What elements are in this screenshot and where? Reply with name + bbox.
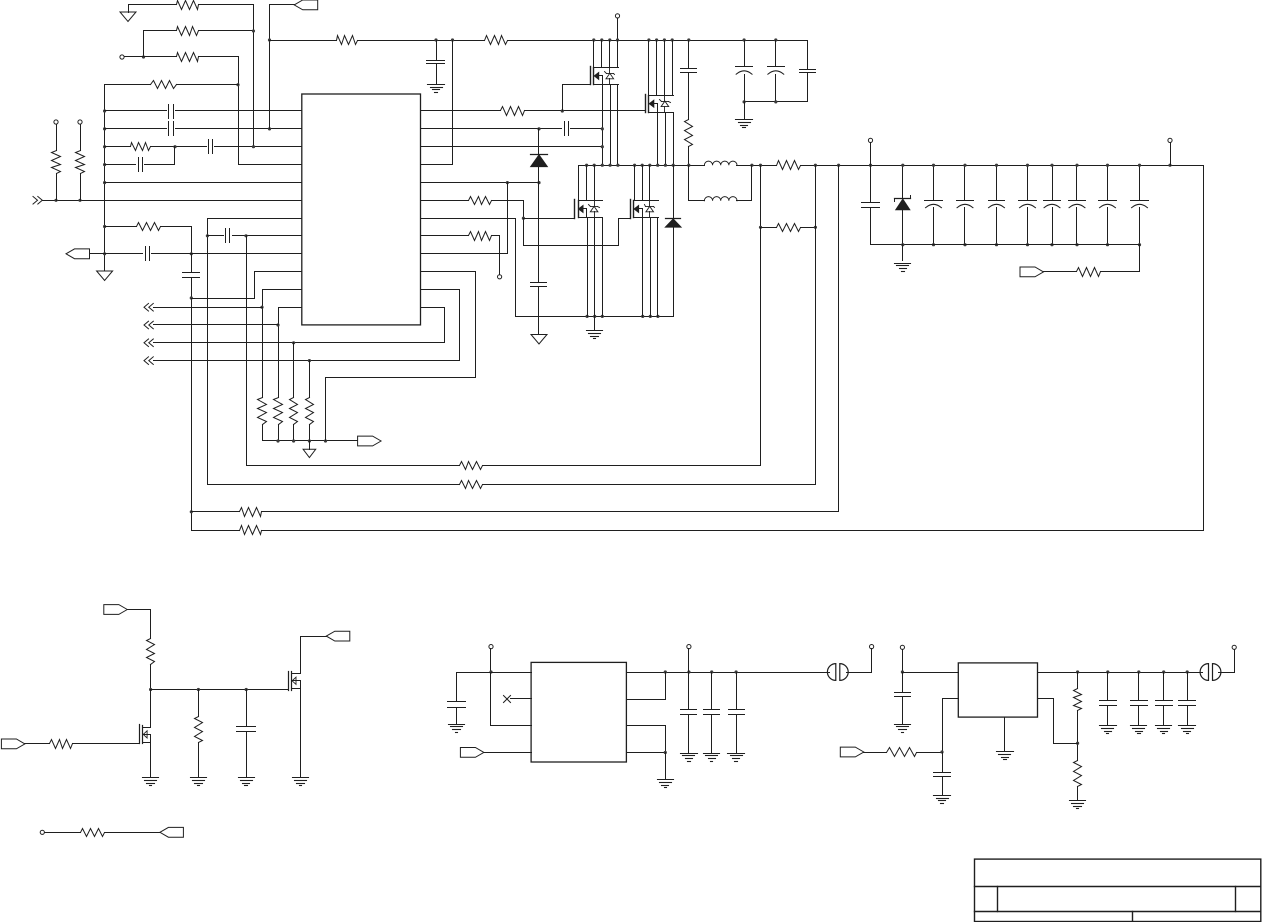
junction [655, 38, 658, 41]
node [236, 83, 239, 86]
wire [151, 146, 207, 148]
wire [105, 164, 136, 166]
junction [649, 315, 652, 318]
junction [103, 225, 106, 228]
wire rail [263, 440, 358, 442]
wire [154, 324, 279, 326]
wire [649, 166, 651, 201]
ground [143, 778, 159, 786]
wire [648, 41, 650, 96]
diode D1 [531, 129, 548, 283]
wire rail [627, 672, 830, 674]
wire [176, 128, 302, 130]
ground [895, 725, 911, 733]
junction [743, 100, 746, 103]
wire [154, 307, 263, 309]
resistor R21 [460, 462, 483, 470]
pin P10 [687, 645, 691, 649]
junction [940, 750, 943, 753]
wire [594, 166, 596, 201]
wire [233, 235, 302, 237]
ground [1070, 801, 1086, 809]
resistor R29 [81, 829, 105, 837]
wire [421, 183, 508, 254]
resistor R18 [469, 232, 492, 241]
flag F8 [160, 827, 184, 837]
resistor R20 [777, 224, 801, 232]
junction [814, 164, 817, 167]
pin P3 [78, 120, 82, 124]
resistor R24 [240, 526, 262, 535]
wire [199, 56, 239, 58]
wire [457, 672, 532, 674]
junction [308, 439, 311, 442]
junction [1106, 243, 1109, 246]
ground [658, 753, 674, 788]
junction [600, 38, 603, 41]
junction [663, 38, 666, 41]
junction [451, 38, 454, 41]
wire [309, 425, 311, 441]
wire [208, 219, 302, 485]
wire [262, 425, 264, 441]
wire [1101, 245, 1140, 272]
wire [198, 690, 200, 717]
junction [774, 38, 777, 41]
capacitor C20 [1044, 166, 1061, 245]
wire [255, 271, 302, 273]
junction [710, 670, 713, 673]
wire [105, 110, 167, 112]
net-tie J1 [827, 664, 848, 681]
resistor R14 [485, 36, 508, 45]
capacitor C6 [183, 273, 200, 278]
wire [760, 166, 762, 228]
pin P9 [489, 645, 493, 649]
resistor R23 [240, 508, 262, 517]
wire [586, 166, 588, 201]
ground [531, 335, 547, 345]
pin P5 [498, 275, 502, 279]
inductor L1 [704, 161, 737, 165]
capacitor C13 [565, 122, 569, 136]
wire [627, 726, 666, 753]
junction [616, 38, 619, 41]
junction [206, 234, 209, 237]
wire [215, 146, 302, 148]
flag F4 [1020, 267, 1044, 277]
wire [516, 219, 674, 317]
wire [145, 164, 175, 166]
junction [245, 688, 248, 691]
pin P4 [615, 14, 619, 18]
wire [688, 147, 690, 166]
wire [563, 85, 591, 111]
junction [506, 181, 509, 184]
wire [161, 227, 192, 254]
wire [815, 166, 817, 228]
ground [97, 271, 113, 281]
transistor Q2 [646, 95, 674, 113]
wire rail [262, 530, 1204, 532]
no-connect [504, 696, 511, 703]
junction [664, 670, 667, 673]
node [252, 145, 255, 148]
junction [103, 252, 106, 255]
wire [672, 41, 674, 96]
ground [428, 85, 445, 93]
port A4 [144, 357, 153, 365]
resistor R26 [147, 639, 155, 665]
junction [190, 510, 193, 513]
wire [421, 128, 562, 130]
wire [602, 85, 604, 166]
ic U1 [302, 94, 421, 325]
wire [815, 228, 817, 485]
resistor R5 [131, 143, 151, 151]
capacitor C5 [146, 247, 150, 261]
capacitor C25 [448, 673, 466, 724]
resistor R28 [195, 717, 203, 743]
junction [434, 38, 437, 41]
wire [1077, 673, 1079, 689]
wire [421, 182, 539, 184]
wire [421, 235, 469, 237]
ground [239, 778, 255, 786]
wire [43, 200, 302, 202]
inductor L2 [689, 166, 752, 201]
capacitor C8 [427, 41, 445, 85]
junction [901, 164, 904, 167]
node [54, 199, 57, 202]
capacitor C24 [237, 690, 256, 778]
wire [745, 101, 808, 103]
net-tie J2 [1200, 664, 1221, 681]
resistor R16 [685, 120, 693, 147]
wire [293, 425, 295, 441]
ground [293, 778, 309, 786]
wire [90, 253, 143, 255]
pin P7 [1168, 138, 1172, 142]
junction [647, 38, 650, 41]
resistor R1 [177, 1, 199, 10]
junction [103, 163, 106, 166]
wire [688, 649, 690, 673]
capacitor Cx [1131, 673, 1148, 726]
junction [1050, 243, 1053, 246]
flag F7 [326, 631, 350, 641]
resistor R6 [52, 151, 61, 174]
wire [270, 40, 337, 42]
junction [593, 315, 596, 318]
junction [308, 359, 311, 362]
node [173, 145, 176, 148]
resistor R30 [887, 748, 917, 757]
wire rail [737, 165, 777, 167]
wire [270, 5, 295, 129]
wire [279, 307, 302, 309]
wire rail [871, 244, 1140, 246]
capacitor C14 [531, 283, 547, 287]
wire [421, 41, 453, 165]
wire [144, 30, 177, 32]
capacitor C19 [1019, 166, 1037, 245]
junction [633, 164, 636, 167]
wire [192, 272, 255, 299]
resistor R10 [274, 398, 283, 425]
resistor R22 [460, 481, 483, 489]
wire [847, 649, 872, 673]
capacitor C30 [934, 753, 951, 796]
wire [617, 41, 619, 68]
wire [617, 85, 619, 166]
wire [326, 272, 476, 441]
wire [105, 182, 302, 184]
capacitor C12 [800, 41, 816, 102]
wire rail [483, 484, 816, 486]
ground [587, 317, 603, 339]
junction [616, 164, 619, 167]
node [252, 29, 255, 32]
junction [1026, 164, 1029, 167]
wire [571, 128, 603, 130]
ground [1100, 726, 1117, 734]
node [190, 252, 193, 255]
resistor R13 [337, 36, 358, 45]
resistor R31 [1074, 689, 1082, 711]
wire bus [104, 85, 106, 271]
capacitor C29 [895, 673, 911, 724]
junction [1106, 164, 1109, 167]
wire [593, 41, 595, 68]
wire [128, 610, 151, 639]
wire [492, 201, 524, 246]
wire [610, 85, 612, 166]
resistor R3 [177, 53, 199, 62]
wire rail [262, 511, 839, 513]
ground [704, 754, 720, 762]
wire [1203, 166, 1205, 531]
wire [239, 164, 302, 166]
ic U2 [531, 662, 626, 762]
wire [601, 41, 603, 68]
junction [537, 127, 540, 130]
wire [917, 752, 943, 754]
junction [593, 164, 596, 167]
flag F9 [460, 748, 484, 758]
wire rail SW [579, 165, 705, 167]
junction [759, 164, 762, 167]
wire [150, 690, 152, 728]
wire [634, 166, 636, 201]
junction [592, 38, 595, 41]
wire [238, 57, 240, 165]
wire [511, 698, 532, 700]
capacitor C1 [169, 105, 174, 119]
title block [975, 859, 1261, 921]
diode D2 [665, 166, 681, 317]
capacitor Cx [1179, 673, 1196, 726]
wire [665, 113, 667, 166]
resistor R15 [501, 107, 525, 116]
wire [761, 227, 777, 229]
wire [208, 235, 224, 237]
wire rail [192, 530, 240, 532]
transistor Q4 [631, 200, 659, 219]
junction [671, 38, 674, 41]
wire [421, 218, 516, 220]
wire [421, 146, 603, 148]
resistor R25 [1077, 268, 1101, 277]
wire [609, 41, 611, 68]
flag F2 [358, 436, 382, 446]
wire [1170, 143, 1172, 166]
node [78, 199, 81, 202]
wire [176, 110, 302, 112]
wire [1038, 699, 1078, 744]
wire [105, 226, 137, 228]
wire [105, 84, 151, 86]
wire [864, 752, 887, 754]
junction [995, 243, 998, 246]
wire [129, 4, 177, 6]
junction [561, 109, 564, 112]
wire rail [151, 689, 289, 691]
junction [648, 164, 651, 167]
junction [103, 127, 106, 130]
capacitor C16 [925, 166, 943, 245]
resistor R9 [258, 398, 267, 425]
transistor Q1 [591, 67, 619, 85]
pin P8 [40, 830, 44, 834]
wire [760, 228, 762, 466]
wire rail [192, 511, 240, 513]
flag F6 [1, 739, 25, 749]
port A1 [144, 303, 153, 311]
wire [309, 361, 311, 398]
ground [895, 245, 911, 272]
junction [190, 296, 193, 299]
wire [198, 743, 200, 778]
capacitor C18 [989, 166, 1005, 245]
capacitor C2 [169, 122, 174, 136]
wire [150, 665, 152, 690]
ground [120, 5, 136, 22]
wire [538, 287, 540, 335]
resistor R32 [1074, 761, 1082, 787]
wire [80, 174, 82, 201]
wire [177, 84, 239, 86]
wire [143, 31, 145, 57]
junction [1186, 670, 1189, 673]
junction [774, 100, 777, 103]
wire [301, 637, 327, 674]
capacitor C10 [736, 41, 753, 102]
junction [1076, 742, 1079, 745]
pin P1 [120, 55, 124, 59]
junction [276, 439, 279, 442]
ground [728, 754, 745, 762]
junction [609, 164, 612, 167]
junction [324, 439, 327, 442]
capacitor C27 [704, 673, 720, 753]
junction [743, 38, 746, 41]
junction [601, 164, 604, 167]
wire [491, 673, 532, 726]
transistor Q5 [140, 725, 151, 744]
capacitor C21 [1069, 166, 1086, 245]
junction [759, 226, 762, 229]
junction [932, 243, 935, 246]
junction [869, 164, 872, 167]
wire [191, 254, 193, 273]
junction [103, 145, 106, 148]
wire [293, 343, 295, 398]
junction [1106, 670, 1109, 673]
wire [903, 672, 959, 674]
wire [73, 743, 140, 745]
node [268, 127, 271, 130]
resistor R8 [137, 223, 161, 231]
junction [641, 315, 644, 318]
wire rail [483, 465, 761, 467]
capacitor C7 [226, 229, 230, 243]
wire [602, 218, 604, 317]
capacitor C15 [862, 166, 880, 245]
ground [303, 441, 316, 458]
wire [627, 752, 666, 754]
junction [103, 181, 106, 184]
wire [125, 56, 177, 58]
junction [814, 226, 817, 229]
flag F5 [104, 605, 128, 615]
junction [1138, 243, 1141, 246]
ground [736, 102, 753, 128]
ground [1179, 726, 1196, 734]
capacitor C23 [1131, 166, 1149, 245]
wire [657, 113, 659, 166]
ground [449, 725, 465, 733]
transistor Q6 [289, 672, 301, 691]
transistor Q3 [575, 200, 603, 219]
junction [687, 164, 690, 167]
pin P13 [1232, 645, 1236, 649]
pin P11 [870, 645, 874, 649]
junction [664, 164, 667, 167]
wire [105, 128, 167, 130]
capacitor C9 [681, 41, 697, 120]
junction [687, 38, 690, 41]
wire [594, 218, 596, 317]
junction [750, 164, 753, 167]
ground [681, 754, 698, 762]
wire [199, 30, 254, 32]
wire [617, 19, 619, 41]
wire [657, 218, 659, 317]
wire [673, 113, 675, 166]
junction [963, 243, 966, 246]
junction [901, 670, 904, 673]
junction [537, 181, 540, 184]
wire [262, 290, 264, 398]
ground [997, 718, 1014, 760]
junction [197, 688, 200, 691]
junction [995, 164, 998, 167]
junction [1137, 670, 1140, 673]
junction [641, 164, 644, 167]
resistor R2 [177, 27, 199, 36]
ground [1156, 726, 1172, 734]
